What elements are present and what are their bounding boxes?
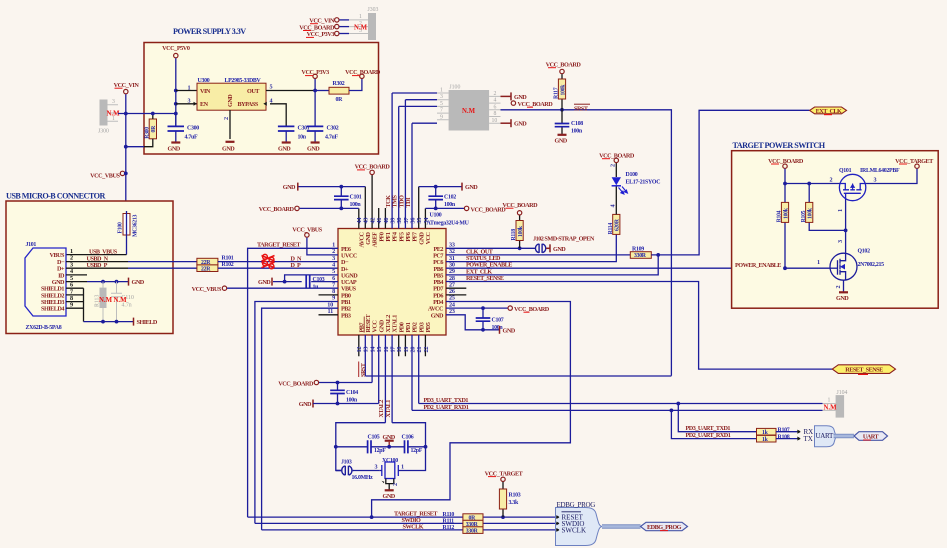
junction C107 bottom	[481, 328, 485, 332]
wire R107 to RX	[776, 431, 797, 433]
power flag VCC_P3V3 J303	[306, 31, 349, 38]
svg-text:SWCLK: SWCLK	[403, 524, 424, 531]
svg-text:OUT: OUT	[247, 88, 260, 95]
ground flag below C302	[307, 143, 320, 153]
resistor R110	[463, 514, 483, 522]
ground flag left rail	[283, 183, 298, 192]
svg-text:U100: U100	[430, 213, 442, 219]
wire CLK_OUT row to R109	[446, 254, 630, 256]
power flag VCC_VBUS left	[90, 171, 126, 179]
svg-text:VCC_BOARD: VCC_BOARD	[278, 380, 314, 387]
svg-text:100n: 100n	[571, 129, 583, 135]
svg-text:GND: GND	[227, 94, 234, 107]
ground flag J101	[129, 278, 145, 287]
svg-text:EN: EN	[200, 101, 209, 108]
svg-text:6: 6	[494, 104, 497, 110]
ground flag J102	[546, 244, 566, 253]
svg-text:11: 11	[328, 308, 334, 315]
U100 bottom pin numbers rotated	[356, 347, 430, 353]
wire PD3 UART TXD1	[419, 403, 823, 405]
svg-text:100k: 100k	[783, 207, 789, 219]
connector J303 (not mounted)	[349, 7, 379, 40]
shield flag	[134, 318, 158, 327]
svg-text:2: 2	[223, 117, 230, 120]
svg-text:J101: J101	[26, 242, 37, 248]
svg-text:R118: R118	[511, 229, 517, 241]
junction R300 bottom wire	[124, 145, 128, 149]
power flag VCC_BOARD left rail	[259, 206, 299, 213]
resistor R117	[554, 74, 567, 110]
U100 bottom pins 12-22	[359, 335, 426, 423]
wire VCC_VIN vertical to USB fuse	[125, 94, 127, 213]
resistor R302	[329, 81, 349, 103]
svg-text:RESET_SENSE: RESET_SENSE	[466, 275, 504, 282]
crystal XC100	[375, 458, 405, 490]
ground rail right of U100	[419, 186, 462, 188]
pin5 GND wire	[66, 281, 87, 283]
resistor R113 (not mounted)	[94, 282, 106, 322]
svg-text:R104: R104	[777, 210, 783, 222]
svg-text:TARGET_RESET: TARGET_RESET	[257, 242, 301, 249]
svg-text:7: 7	[440, 108, 443, 114]
svg-text:GND: GND	[553, 246, 566, 253]
svg-text:3: 3	[874, 177, 877, 184]
wire R109 to EXT_CLK riser	[651, 110, 809, 255]
junction C104 top	[336, 381, 340, 385]
junction R105/gate	[844, 229, 848, 233]
svg-text:GND: GND	[383, 434, 396, 441]
svg-text:C103: C103	[313, 277, 325, 283]
wire pin10 PB2 to SWCLK	[262, 308, 338, 530]
svg-text:C108: C108	[571, 121, 583, 127]
junction C105 left	[334, 445, 338, 449]
ground flag right rail	[462, 183, 478, 192]
wire VIN	[176, 90, 197, 92]
harness row SWDIO	[556, 520, 584, 528]
resistor R300	[144, 114, 157, 147]
svg-text:100k: 100k	[808, 207, 814, 219]
wire SWCLK bottom row	[262, 529, 556, 531]
wire RESET_SENSE row	[446, 282, 832, 370]
U100 top pin names rotated	[358, 231, 432, 247]
power flag VCC_TARGET switch	[895, 158, 934, 169]
wire GND pin23 row	[446, 315, 499, 330]
svg-text:GND: GND	[222, 145, 235, 152]
svg-text:XTAL1: XTAL1	[385, 400, 392, 418]
svg-text:10n: 10n	[298, 134, 307, 140]
harness labels RX TX	[804, 428, 814, 443]
wire R102 to MCU D+	[218, 267, 338, 269]
junction C102 bottom	[434, 207, 438, 211]
svg-text:5: 5	[270, 84, 273, 91]
junction R104 top	[783, 182, 787, 186]
power flag VCC_TARGET R103	[485, 470, 524, 481]
power flag VCC_VIN J303	[309, 18, 349, 25]
wire AVCC row to VCC_BOARD	[446, 307, 508, 309]
svg-text:0R: 0R	[151, 125, 157, 133]
connector J100 (not mounted)	[437, 85, 501, 131]
resistor R109	[630, 247, 651, 260]
svg-text:PD5: PD5	[425, 322, 432, 332]
wire VCC_BOARD rail left	[300, 207, 359, 209]
bus arrow RESET_SENSE	[832, 365, 895, 375]
svg-text:GND: GND	[132, 279, 145, 286]
svg-text:R111: R111	[443, 518, 455, 524]
ground rail left of U100	[299, 186, 366, 188]
svg-text:100k: 100k	[518, 225, 524, 237]
harness block UART	[815, 426, 838, 447]
junction R300 top	[151, 112, 155, 116]
transistor Q102 2N7002,215	[830, 253, 858, 280]
labels Q102	[858, 249, 885, 269]
svg-text:N.M: N.M	[114, 297, 128, 304]
svg-text:EXT_CLK: EXT_CLK	[816, 108, 842, 115]
junction OUT/C302	[313, 89, 317, 93]
U100 top pins 44-34	[359, 93, 426, 229]
svg-text:GND: GND	[278, 145, 291, 152]
wire PD2 UART RXD1	[412, 409, 823, 411]
harness row SWCLK	[556, 527, 586, 535]
solder strap J102	[535, 244, 545, 253]
resistor R108	[757, 435, 790, 443]
resistor R114	[608, 214, 621, 234]
power flag VCC_BOARD R118	[502, 202, 538, 215]
svg-text:U300: U300	[198, 78, 210, 84]
svg-text:TX: TX	[804, 435, 813, 443]
svg-text:J103: J103	[341, 460, 352, 466]
svg-text:VCC_VBUS: VCC_VBUS	[90, 173, 120, 180]
svg-text:GND: GND	[503, 327, 516, 334]
svg-text:PB3: PB3	[341, 312, 351, 319]
wire J100 pin5 to TMS	[399, 105, 437, 107]
svg-text:EDBG_PROG: EDBG_PROG	[557, 501, 596, 509]
junction SRST R117	[560, 108, 564, 112]
wire VCC_P5V0 vertical to VIN/EN	[175, 58, 177, 126]
svg-text:GND: GND	[555, 137, 568, 144]
bus ribbon UART	[834, 434, 855, 437]
ground flag XC100	[383, 490, 396, 500]
svg-text:N.M: N.M	[462, 108, 476, 115]
svg-text:9: 9	[440, 114, 443, 120]
svg-text:3.3k: 3.3k	[509, 500, 519, 506]
wire VCC_BOARD rail right	[425, 207, 464, 209]
ground flag below C301	[278, 143, 291, 153]
bus ribbon EDBG_PROG	[602, 525, 641, 528]
ground flag J100 pin10	[501, 119, 528, 128]
wire XTAL2 left branch	[336, 423, 386, 471]
wire RXD1 to TX row	[671, 410, 756, 438]
power flag VCC_P3V3	[301, 69, 329, 79]
shield pins bus wire	[66, 288, 84, 321]
harness row RESET	[556, 512, 584, 522]
capacitor C108	[555, 110, 584, 135]
wire pin7 VBUS	[227, 287, 338, 289]
wire J300 pin2 to VIN net	[118, 113, 144, 115]
junction GND caps row	[387, 445, 391, 449]
svg-text:GND: GND	[258, 279, 271, 286]
U100 left pin names	[341, 246, 358, 319]
resistor R112	[463, 527, 483, 535]
U300 GND pin wire	[229, 110, 231, 139]
svg-text:VCC_BOARD: VCC_BOARD	[518, 101, 554, 108]
svg-text:10: 10	[492, 118, 498, 124]
microcontroller U100 ATmega32U4-MU body	[338, 213, 470, 336]
svg-text:GND: GND	[383, 493, 396, 500]
svg-text:GND: GND	[283, 184, 296, 191]
svg-text:100n: 100n	[346, 397, 358, 403]
svg-text:1: 1	[828, 398, 831, 404]
svg-text:J300: J300	[98, 129, 109, 135]
resistor R118	[511, 215, 524, 248]
wire EXT_CLK row elbow	[446, 255, 658, 275]
U100 NC pin stubs left	[319, 295, 339, 315]
svg-text:0R: 0R	[336, 97, 344, 103]
wire GND pin15 row	[313, 403, 379, 405]
wire PD4 long path	[372, 302, 571, 518]
svg-text:4.7uF: 4.7uF	[185, 134, 198, 140]
ground flag U300	[222, 142, 235, 153]
svg-text:R108: R108	[778, 435, 790, 441]
resistor R102	[197, 262, 234, 272]
wire R302 to VCC_BOARD	[349, 79, 362, 91]
differential pair marker USBD_N	[262, 254, 275, 262]
svg-text:C105: C105	[368, 435, 380, 441]
svg-text:8: 8	[494, 111, 497, 117]
wire BYPASS to C301	[270, 104, 286, 126]
svg-text:UART: UART	[816, 432, 834, 440]
svg-text:EL17-21SYOC: EL17-21SYOC	[626, 180, 661, 186]
svg-text:J104: J104	[837, 390, 848, 396]
ground flag C107	[500, 326, 516, 335]
power flag VCC_P5V0	[162, 45, 190, 58]
connector J101 ZX62D-B-5PA8	[25, 242, 66, 331]
svg-text:22: 22	[423, 347, 430, 353]
power flag VCC_BOARD AREF	[355, 164, 391, 175]
svg-text:4: 4	[494, 98, 497, 104]
power flag VCC_BOARD right rail	[464, 206, 506, 213]
arrow RX	[797, 430, 800, 433]
ground flag Q102	[836, 292, 849, 302]
pin name RESET overline	[363, 317, 365, 333]
power flag VCC_BOARD C104	[278, 380, 318, 387]
svg-text:R109: R109	[632, 247, 644, 253]
junction VCC_VBUS	[124, 172, 128, 176]
svg-text:VCC_BOARD: VCC_BOARD	[514, 306, 550, 313]
svg-text:GND: GND	[299, 401, 312, 408]
capacitor C102	[428, 187, 456, 209]
junction C106 right	[424, 445, 428, 449]
arrow TX	[797, 437, 800, 440]
junction VIN	[174, 89, 178, 93]
target power switch box	[732, 151, 939, 309]
power flag VCC_VBUS pin2	[292, 227, 322, 238]
wire EN	[176, 103, 197, 105]
svg-text:C101: C101	[350, 195, 362, 201]
svg-text:GND: GND	[514, 94, 527, 101]
svg-text:ZX62D-B-5PA8: ZX62D-B-5PA8	[26, 325, 62, 331]
svg-text:2: 2	[610, 164, 617, 167]
svg-text:R103: R103	[509, 492, 521, 498]
svg-text:VCC_BOARD: VCC_BOARD	[471, 206, 507, 213]
junction R118 bottom	[518, 246, 522, 250]
junction TARGET_RESET/PD4	[370, 515, 374, 519]
wire VCC_P3V3 down	[314, 79, 316, 126]
capacitor C107	[476, 308, 504, 331]
svg-text:SHIELD4: SHIELD4	[41, 306, 64, 313]
junction C110 top	[115, 280, 119, 284]
svg-text:VCC_P5V0: VCC_P5V0	[162, 45, 190, 52]
junction shield R113	[101, 320, 105, 324]
wire Q102 source to GND	[843, 280, 845, 291]
svg-text:12pF: 12pF	[374, 448, 386, 454]
wire PE2 row to J102	[446, 247, 535, 249]
svg-text:1: 1	[440, 88, 443, 94]
svg-text:100n: 100n	[350, 202, 362, 208]
svg-text:USB MICRO-B CONNECTOR: USB MICRO-B CONNECTOR	[6, 192, 105, 201]
svg-text:330R: 330R	[634, 253, 647, 259]
svg-text:100n: 100n	[444, 202, 456, 208]
svg-text:3: 3	[112, 99, 115, 105]
connector J300 (not mounted)	[98, 99, 118, 135]
junction POWER_ENABLE R104	[783, 266, 787, 270]
svg-text:F100: F100	[118, 222, 124, 233]
junction R105 top	[807, 182, 811, 186]
svg-text:D100: D100	[626, 172, 638, 178]
pin numbers Q101	[830, 177, 877, 213]
harness block EDBG_PROG	[556, 501, 603, 546]
svg-text:VCC_VBUS: VCC_VBUS	[192, 286, 222, 293]
svg-text:3: 3	[375, 463, 378, 470]
svg-text:PD2_UART_RXD1: PD2_UART_RXD1	[686, 432, 731, 439]
LED D100	[610, 163, 661, 214]
ground flag below C300	[168, 143, 181, 153]
svg-text:J102 SMD-STRAP_OPEN: J102 SMD-STRAP_OPEN	[533, 236, 595, 243]
svg-text:5: 5	[440, 101, 443, 107]
wire VCC_BOARD to Q101 source rail	[785, 169, 840, 184]
svg-text:C302: C302	[327, 125, 339, 131]
svg-text:1u: 1u	[313, 285, 320, 291]
svg-text:C107: C107	[492, 318, 504, 324]
bus arrow EDBG_PROG	[641, 522, 688, 531]
svg-text:LP2985-33DBV: LP2985-33DBV	[225, 78, 262, 84]
wire pin9 PB1 to SWDIO	[255, 302, 338, 524]
junction C102 top	[434, 185, 438, 189]
svg-text:C106: C106	[402, 435, 414, 441]
resistor R104	[777, 184, 790, 269]
wire XTAL1 right branch	[392, 423, 425, 471]
junction C101 bottom	[339, 207, 343, 211]
svg-text:3: 3	[440, 94, 443, 100]
wire pin5 UGND elbow	[285, 275, 338, 282]
bus arrow UART	[854, 432, 888, 441]
junction TXD1 drop	[676, 402, 680, 406]
power flag VCC_BOARD switch	[768, 158, 804, 169]
fuse F100 MC36213	[118, 211, 139, 237]
svg-text:BYPASS: BYPASS	[238, 101, 259, 108]
svg-text:4.7uF: 4.7uF	[325, 134, 338, 140]
svg-text:N.M: N.M	[354, 25, 368, 32]
capacitor C302	[307, 125, 339, 141]
svg-text:2: 2	[494, 91, 497, 97]
wire VCC pin14 row	[319, 382, 372, 384]
pin numbers J101	[70, 248, 73, 309]
svg-text:1: 1	[188, 84, 191, 91]
power flag VCC_VBUS pin7	[192, 286, 227, 293]
power flag VCC_VIN J300	[114, 82, 140, 94]
wire TXD1 to RX row	[678, 404, 756, 432]
wire TARGET_RESET from pin1	[248, 248, 338, 517]
junction R113 top	[101, 280, 105, 284]
svg-text:R102: R102	[222, 262, 234, 268]
svg-text:SHIELD: SHIELD	[137, 319, 158, 326]
svg-text:GND: GND	[836, 295, 849, 302]
transistor Q101 IRLML6402PBF	[839, 174, 865, 200]
junction C104 bottom	[336, 402, 340, 406]
wire Q101 gate to Q102 drain	[845, 199, 847, 253]
U100 right pin numbers	[449, 242, 455, 316]
resistor R105	[801, 184, 846, 231]
svg-text:R101: R101	[222, 256, 234, 262]
labels Q101	[839, 168, 900, 174]
wire POWER_ENABLE row	[446, 267, 785, 269]
wire USBD_P	[66, 267, 128, 269]
power flag VCC_BOARD D100	[599, 153, 635, 163]
svg-text:GND: GND	[465, 184, 478, 191]
svg-text:J100: J100	[449, 85, 460, 91]
svg-text:ATmega32U4-MU: ATmega32U4-MU	[427, 221, 470, 227]
U100 top pin numbers rotated	[356, 218, 430, 224]
ground flag C108	[555, 135, 568, 145]
U100 bottom pin names rotated	[358, 313, 432, 332]
svg-text:POWER_ENABLE: POWER_ENABLE	[466, 262, 512, 269]
wire pin6 UCAP / C103 row	[273, 281, 338, 283]
capacitor C110 (not mounted)	[111, 282, 134, 322]
wire POWER_ENABLE inside switch	[785, 267, 830, 269]
wire R300 bottom stub outside box	[126, 146, 144, 148]
resistor R103	[499, 482, 520, 517]
wire SWDIO bottom row	[255, 522, 556, 524]
resistor R107	[757, 428, 790, 436]
svg-text:J303: J303	[368, 7, 379, 13]
svg-text:34: 34	[423, 218, 430, 224]
svg-text:R110: R110	[443, 512, 455, 518]
svg-text:3: 3	[188, 98, 191, 105]
svg-text:TDI: TDI	[405, 197, 412, 208]
regulator U300	[188, 78, 273, 120]
power flag VCC_BOARD pwr box	[345, 69, 381, 79]
svg-text:23: 23	[449, 308, 455, 315]
wire J103 to crystal	[354, 470, 380, 472]
svg-text:N.M: N.M	[824, 405, 838, 412]
svg-text:1: 1	[359, 14, 362, 20]
svg-text:GND: GND	[168, 145, 181, 152]
svg-text:SRST: SRST	[574, 105, 589, 112]
svg-text:C104: C104	[346, 390, 358, 396]
svg-text:SWCLK: SWCLK	[562, 527, 587, 535]
junction C101 top	[339, 185, 343, 189]
solder strap J103	[336, 466, 354, 476]
junction EN	[174, 102, 178, 106]
bus arrow EXT_CLK	[810, 107, 847, 115]
wire SRST pin13	[365, 375, 671, 377]
junction VCC_VIN/VIN wire	[124, 112, 128, 116]
svg-text:R105: R105	[801, 210, 807, 222]
svg-text:GND: GND	[431, 312, 444, 319]
svg-text:PD2_UART_RXD1: PD2_UART_RXD1	[424, 404, 469, 411]
capacitor C301	[278, 125, 310, 141]
svg-text:3: 3	[837, 240, 844, 243]
wire R101 to MCU D-	[218, 261, 338, 263]
